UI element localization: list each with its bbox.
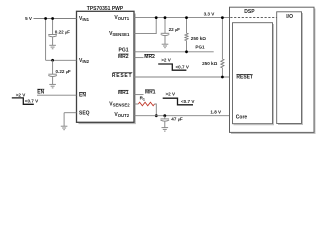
junction dot RESET/R3 (221, 76, 224, 79)
svg-text:VOUT2: VOUT2 (114, 112, 129, 118)
svg-text:R1: R1 (140, 96, 145, 102)
resistor R2 lead bottom (186, 41, 188, 52)
junction dot 5V/C1 (51, 17, 54, 20)
svg-text:47 µF: 47 µF (171, 116, 183, 121)
wire VOUT1 3.3V rail (134, 17, 230, 19)
ground C1 (49, 45, 56, 49)
Core box shadow (234, 24, 274, 125)
dashed wire 3.3V to I/O (230, 17, 276, 19)
svg-text:250 kΩ: 250 kΩ (191, 36, 206, 41)
I/O box shadow (278, 13, 303, 125)
Core box (233, 23, 273, 124)
wire SEQ (64, 112, 76, 114)
MR1 input waveform (163, 98, 193, 105)
resistor R2 250k lead top (186, 18, 188, 34)
DSP box shadow (231, 9, 315, 134)
wire drop to C1 (52, 19, 54, 35)
svg-text:VSENSE2: VSENSE2 (109, 102, 130, 108)
svg-text:RESET: RESET (236, 74, 253, 80)
svg-text:<0.7 V: <0.7 V (176, 65, 190, 70)
EN input waveform (12, 98, 34, 104)
svg-text:VSENSE1: VSENSE1 (109, 31, 130, 37)
svg-text:EN: EN (79, 93, 86, 99)
MR2 input waveform (158, 64, 186, 70)
svg-text:MR2: MR2 (118, 54, 129, 60)
junction dot VSENSE1/rail (155, 16, 158, 19)
wire drop to VIN2 (45, 19, 47, 61)
junction dot PG1/R2 (185, 50, 188, 53)
svg-text:VIN1: VIN1 (79, 16, 90, 22)
wire SEQ drop to ground (63, 113, 65, 127)
svg-text:<0.7 V: <0.7 V (25, 99, 39, 104)
resistor R3 250k lead top (221, 18, 223, 60)
svg-text:<0.7 V: <0.7 V (181, 99, 195, 104)
capacitor C1 0.22 uF (48, 35, 57, 46)
svg-text:250 kΩ: 250 kΩ (202, 61, 217, 66)
wire EN to pin (37, 94, 77, 96)
svg-text:1.8 V: 1.8 V (210, 109, 222, 114)
wire RESET (134, 76, 230, 78)
svg-text:PG1: PG1 (195, 44, 205, 49)
wire VOUT2 1.8V rail (134, 115, 230, 117)
junction dot C4/rail (163, 114, 166, 117)
junction dot VSENSE2/rail (155, 114, 158, 117)
svg-text:MR1: MR1 (118, 90, 129, 96)
svg-text:MR1: MR1 (145, 90, 156, 96)
svg-text:Core: Core (236, 114, 248, 120)
ground C3 (162, 44, 169, 48)
ground C2 (49, 84, 56, 88)
svg-text:0.22 µF: 0.22 µF (55, 29, 70, 34)
wire drop to C3 (164, 18, 166, 34)
capacitor C4 47 uF (161, 119, 170, 128)
junction dot R3/rail (221, 16, 224, 19)
svg-text:I/O: I/O (286, 14, 293, 20)
wire drop to C4 (164, 116, 166, 119)
svg-text:VIN2: VIN2 (79, 58, 90, 64)
wire 5V to VIN1 (34, 18, 77, 20)
svg-text:3.3 V: 3.3 V (204, 11, 216, 16)
svg-text:SEQ: SEQ (79, 110, 90, 116)
I/O box (277, 12, 302, 124)
junction dot VIN2/C2 (51, 59, 54, 62)
ground C4 (162, 128, 169, 132)
svg-text:>2 V: >2 V (166, 92, 177, 97)
wire VSENSE2 lead left (134, 103, 138, 105)
resistor R1 (red) zigzag (138, 102, 154, 106)
svg-text:RESET: RESET (112, 73, 132, 79)
svg-text:TPS70351 PWP: TPS70351 PWP (87, 6, 124, 12)
resistor R2 250k zigzag (185, 33, 188, 40)
ground SEQ (61, 126, 68, 130)
wire VSENSE1 feedback (134, 18, 156, 34)
resistor R3 250k zigzag (221, 59, 224, 68)
junction dot R2/rail (185, 16, 188, 19)
wire VSENSE2 to VOUT2 rail (155, 104, 157, 116)
svg-text:0.22 µF: 0.22 µF (56, 69, 71, 74)
wire PG1 (134, 51, 214, 53)
svg-text:EN: EN (37, 89, 44, 95)
resistor R3 lead bottom (221, 68, 223, 77)
junction dot C3/rail (164, 16, 167, 19)
wire VIN2 (46, 59, 77, 61)
wire drop VIN2 to C2 (52, 60, 54, 74)
wire MR1 stub (134, 94, 144, 96)
wire MR2 stub (134, 57, 144, 59)
svg-text:PG1: PG1 (118, 47, 128, 53)
svg-text:DSP: DSP (244, 9, 255, 15)
IC U1 TPS70351 PWP box (77, 11, 135, 122)
DSP box (230, 7, 315, 132)
capacitor C3 22 uF (161, 33, 170, 44)
svg-text:5 V: 5 V (25, 16, 33, 21)
svg-text:>2 V: >2 V (16, 93, 27, 98)
svg-text:>2 V: >2 V (161, 58, 172, 63)
capacitor C2 0.22 uF (48, 74, 57, 84)
svg-text:22 µF: 22 µF (169, 27, 181, 32)
svg-text:MR2: MR2 (144, 54, 155, 60)
junction dot 5V/VIN2 (44, 17, 47, 20)
svg-text:VOUT1: VOUT1 (114, 15, 129, 21)
IC U1 TPS70351 PWP box shadow (79, 14, 136, 124)
